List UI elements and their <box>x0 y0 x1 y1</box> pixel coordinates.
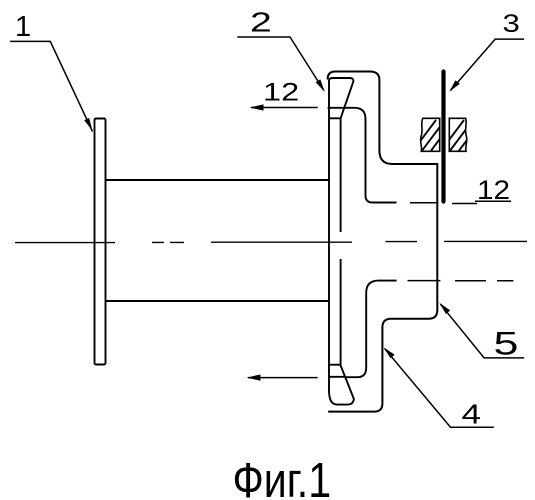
svg-text:Фиг.1: Фиг.1 <box>233 453 332 500</box>
svg-text:5: 5 <box>494 326 519 362</box>
svg-text:3: 3 <box>503 9 520 37</box>
svg-text:2: 2 <box>250 7 272 38</box>
svg-text:12: 12 <box>263 79 299 107</box>
svg-text:1: 1 <box>15 11 31 43</box>
svg-text:12: 12 <box>477 175 510 205</box>
svg-text:4: 4 <box>462 398 481 430</box>
